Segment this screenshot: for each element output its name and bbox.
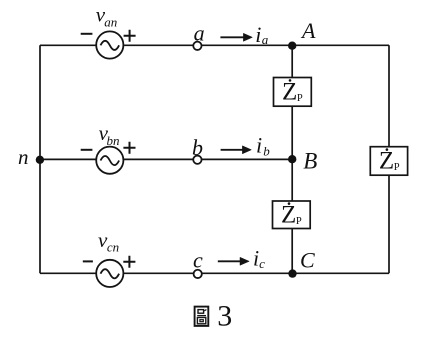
svg-text:B: B: [303, 148, 317, 173]
svg-text:3: 3: [217, 299, 232, 332]
svg-text:bn: bn: [107, 133, 120, 148]
svg-text:i: i: [255, 22, 261, 47]
svg-text:a: a: [262, 32, 269, 47]
svg-text:i: i: [256, 132, 262, 157]
svg-text:Z: Z: [282, 79, 297, 106]
svg-text:b: b: [192, 135, 203, 160]
svg-text:P: P: [296, 216, 302, 227]
svg-text:b: b: [263, 143, 270, 158]
svg-text:P: P: [297, 93, 303, 104]
svg-text:cn: cn: [107, 239, 119, 254]
svg-text:an: an: [104, 15, 117, 30]
svg-text:c: c: [259, 256, 265, 271]
svg-text:c: c: [193, 247, 203, 272]
svg-text:C: C: [300, 248, 315, 273]
svg-text:n: n: [18, 145, 29, 169]
svg-text:Z: Z: [379, 148, 394, 175]
svg-text:Z: Z: [281, 202, 296, 229]
svg-text:a: a: [194, 20, 205, 45]
svg-text:A: A: [300, 18, 316, 43]
svg-text:P: P: [394, 162, 400, 173]
